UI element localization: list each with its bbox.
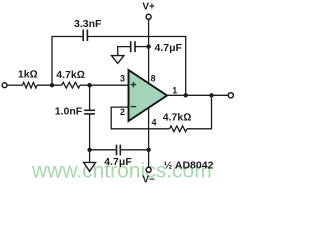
capacitor C1 3.3nF plates xyxy=(82,30,84,42)
op-amp U1 half AD8042 triangle xyxy=(129,70,168,121)
wire top-right corner down to output xyxy=(185,36,187,95)
svg-text:V−: V− xyxy=(142,175,155,186)
wire feedback: output node down, left to R3 xyxy=(187,95,212,129)
svg-text:4: 4 xyxy=(152,117,157,127)
junction dot output / R3 feedback xyxy=(209,93,213,97)
V+ terminal circle xyxy=(146,14,151,19)
capacitor C4 4.7uF plates xyxy=(116,145,118,156)
junction dot output / C1 feedback xyxy=(184,93,188,97)
output terminal circle xyxy=(228,93,233,98)
wire node B down through C3 xyxy=(89,85,91,110)
wire C1 right segment to top-right corner xyxy=(88,36,187,38)
junction dot bottom ground node xyxy=(87,148,91,152)
svg-text:1.0nF: 1.0nF xyxy=(55,105,83,117)
wire C1 left segment xyxy=(51,36,83,38)
op-amp plus sign xyxy=(131,82,136,107)
wire C2 left to ground stem xyxy=(118,47,131,56)
ground stem bottom xyxy=(89,150,91,163)
svg-text:4.7μF: 4.7μF xyxy=(104,156,132,168)
svg-text:3: 3 xyxy=(120,73,125,83)
junction node B dot xyxy=(87,83,91,87)
junction dot V+ / C2 xyxy=(146,44,150,48)
resistor R2 4.7k zigzag xyxy=(62,82,80,88)
wire C4 to V- node xyxy=(120,149,148,151)
svg-text:4.7kΩ: 4.7kΩ xyxy=(163,111,192,123)
junction node A dot xyxy=(50,83,54,87)
wire V+ down to pin 8 xyxy=(148,19,150,84)
svg-text:1kΩ: 1kΩ xyxy=(18,69,38,81)
V- terminal circle xyxy=(146,167,151,172)
wire bottom rail left (gnd node to C4) xyxy=(90,149,117,151)
ground symbol top (triangle) xyxy=(112,56,124,64)
capacitor C2 4.7uF plates xyxy=(130,41,132,52)
svg-text:V+: V+ xyxy=(142,1,155,12)
capacitor C3 1.0nF plates xyxy=(84,109,95,111)
wire R1 to node A xyxy=(37,84,62,86)
junction dot V- rail xyxy=(146,148,150,152)
wire R2 to node B to op-amp pin3 xyxy=(80,84,130,86)
wire op-amp pin4 down to V- terminal xyxy=(148,106,150,167)
ground symbol bottom (triangle) xyxy=(84,162,96,171)
svg-text:3.3nF: 3.3nF xyxy=(74,18,102,30)
svg-text:8: 8 xyxy=(151,73,156,83)
wire C2 4.7uF to V+ rail xyxy=(135,46,148,48)
svg-text:½ AD8042: ½ AD8042 xyxy=(164,160,214,172)
resistor R1 1k zigzag xyxy=(23,82,38,88)
wire node A up xyxy=(51,37,53,86)
wire R3 left to loop up to pin 2 xyxy=(111,107,169,129)
svg-text:4.7kΩ: 4.7kΩ xyxy=(56,69,85,81)
svg-text:1: 1 xyxy=(172,85,177,95)
op-amp minus sign xyxy=(131,106,136,108)
wire output from op-amp tip to terminal xyxy=(166,94,228,96)
svg-text:2: 2 xyxy=(120,107,125,117)
resistor R3 4.7k zigzag xyxy=(170,126,188,132)
wire input to R1 xyxy=(7,84,23,86)
input terminal circle xyxy=(2,83,7,88)
svg-text:4.7μF: 4.7μF xyxy=(155,42,183,54)
